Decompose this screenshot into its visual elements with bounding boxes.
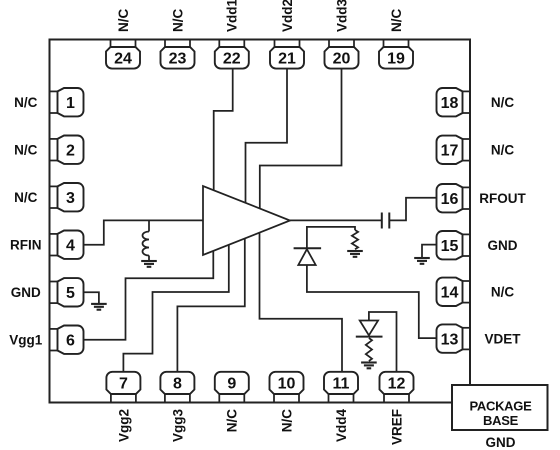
pin 2 pad xyxy=(50,136,84,164)
ground (R2) xyxy=(361,363,377,369)
svg-text:Vdd3: Vdd3 xyxy=(334,0,349,32)
ground (pin 15) xyxy=(414,258,430,264)
package outline xyxy=(50,40,471,403)
wire inductor tap xyxy=(148,220,150,231)
zener D2 cathode bar xyxy=(356,336,383,338)
svg-text:N/C: N/C xyxy=(14,190,38,205)
wire Vgg3 pin8 to amp xyxy=(177,238,244,371)
svg-text:8: 8 xyxy=(173,376,182,393)
pin 18 pad xyxy=(437,88,471,116)
svg-text:2: 2 xyxy=(66,143,75,160)
pin 7 pad xyxy=(106,372,140,403)
pin 14 pad xyxy=(437,278,471,306)
svg-text:23: 23 xyxy=(169,51,187,68)
svg-text:Vgg3: Vgg3 xyxy=(170,409,185,442)
wire Vdd3 pin20 to amp xyxy=(260,69,342,209)
pin 6 pad xyxy=(50,326,84,354)
svg-text:Vgg2: Vgg2 xyxy=(116,409,131,442)
svg-text:21: 21 xyxy=(278,51,296,68)
svg-text:BASE: BASE xyxy=(483,413,519,428)
svg-text:5: 5 xyxy=(66,285,75,302)
ground (R1) xyxy=(347,251,363,257)
pin 8 pad xyxy=(160,372,194,403)
svg-text:RFOUT: RFOUT xyxy=(479,191,526,206)
svg-text:7: 7 xyxy=(119,376,128,393)
zener diode D2 xyxy=(360,321,378,336)
svg-text:N/C: N/C xyxy=(389,9,404,33)
wire inductor to ground xyxy=(148,256,150,262)
wire Vgg1 pin6 to amp xyxy=(84,251,214,340)
svg-text:PACKAGE: PACKAGE xyxy=(470,399,533,414)
wire pin12 VREF to zener xyxy=(369,312,397,372)
svg-text:10: 10 xyxy=(278,376,296,393)
ground (pin 5) xyxy=(91,304,107,310)
pin 10 pad xyxy=(270,372,304,403)
svg-text:24: 24 xyxy=(114,51,132,68)
svg-text:N/C: N/C xyxy=(116,9,131,33)
svg-text:20: 20 xyxy=(333,51,351,68)
svg-text:RFIN: RFIN xyxy=(10,238,42,253)
svg-text:VDET: VDET xyxy=(484,332,521,347)
pin 12 pad xyxy=(380,372,414,403)
wire C1 to pin16 RFOUT xyxy=(389,198,436,221)
op-amp U1 (amplifier triangle) xyxy=(203,186,290,255)
pin 15 pad xyxy=(437,231,471,259)
svg-text:3: 3 xyxy=(66,190,75,207)
package base box xyxy=(452,385,548,430)
svg-text:N/C: N/C xyxy=(279,409,294,433)
svg-text:16: 16 xyxy=(441,191,459,208)
wire RFIN pin4 to amp input xyxy=(84,220,204,244)
diode D1 cathode bar xyxy=(294,247,322,249)
svg-text:GND: GND xyxy=(488,238,518,253)
wire amp output xyxy=(290,219,382,221)
svg-text:Vgg1: Vgg1 xyxy=(9,333,42,348)
svg-text:11: 11 xyxy=(333,376,350,393)
pin 19 pad xyxy=(379,40,413,69)
svg-text:GND: GND xyxy=(11,285,41,300)
svg-text:18: 18 xyxy=(441,95,459,112)
wire Vdd2 pin21 to amp xyxy=(246,69,288,203)
pin 23 pad xyxy=(161,40,195,69)
svg-text:12: 12 xyxy=(388,376,406,393)
svg-text:N/C: N/C xyxy=(491,143,515,158)
ground (inductor) xyxy=(141,261,157,267)
svg-text:Vdd2: Vdd2 xyxy=(280,0,295,32)
svg-text:6: 6 xyxy=(66,333,75,350)
pin 22 pad xyxy=(215,40,249,69)
pin 4 pad xyxy=(50,231,84,259)
wire D1 to pin13 VDET xyxy=(307,265,437,338)
svg-text:22: 22 xyxy=(223,51,241,68)
svg-text:15: 15 xyxy=(441,238,459,255)
wire Vdd1 pin22 to amp xyxy=(214,69,233,191)
svg-text:VREF: VREF xyxy=(389,409,404,445)
svg-text:Vdd1: Vdd1 xyxy=(225,0,240,32)
capacitor C1 xyxy=(382,213,390,229)
svg-text:N/C: N/C xyxy=(491,95,515,110)
svg-text:19: 19 xyxy=(387,51,405,68)
svg-text:Vdd4: Vdd4 xyxy=(334,409,349,442)
svg-text:N/C: N/C xyxy=(14,143,38,158)
pin 1 pad xyxy=(50,88,84,116)
svg-text:N/C: N/C xyxy=(491,285,515,300)
wire Vgg2 pin7 to amp xyxy=(123,245,228,372)
wire Vdd4 pin11 to amp xyxy=(260,233,343,372)
svg-text:N/C: N/C xyxy=(14,95,38,110)
pin 21 pad xyxy=(270,40,304,69)
svg-text:1: 1 xyxy=(66,95,75,112)
wire pin5 to ground xyxy=(84,292,99,304)
pin 17 pad xyxy=(437,136,471,164)
svg-text:GND: GND xyxy=(486,435,516,450)
resistor R2 xyxy=(366,338,372,361)
resistor R1 xyxy=(352,230,358,249)
pin 13 pad xyxy=(437,324,471,352)
svg-text:14: 14 xyxy=(441,285,459,302)
diode D1 xyxy=(298,249,315,265)
svg-text:N/C: N/C xyxy=(170,9,185,33)
svg-text:13: 13 xyxy=(441,331,459,348)
pin 16 pad xyxy=(437,184,471,212)
wire pin15 to ground xyxy=(422,245,437,258)
pin 24 pad xyxy=(106,40,140,69)
svg-text:17: 17 xyxy=(441,143,459,160)
inductor L1 xyxy=(143,232,149,256)
pin 11 pad xyxy=(324,372,358,403)
pin 5 pad xyxy=(50,278,84,306)
pin 3 pad xyxy=(50,183,84,211)
svg-text:9: 9 xyxy=(227,376,236,393)
svg-text:4: 4 xyxy=(66,238,75,255)
pin 9 pad xyxy=(215,372,249,403)
wire detector tap xyxy=(307,227,355,248)
pin 20 pad xyxy=(325,40,359,69)
svg-text:N/C: N/C xyxy=(225,409,240,433)
